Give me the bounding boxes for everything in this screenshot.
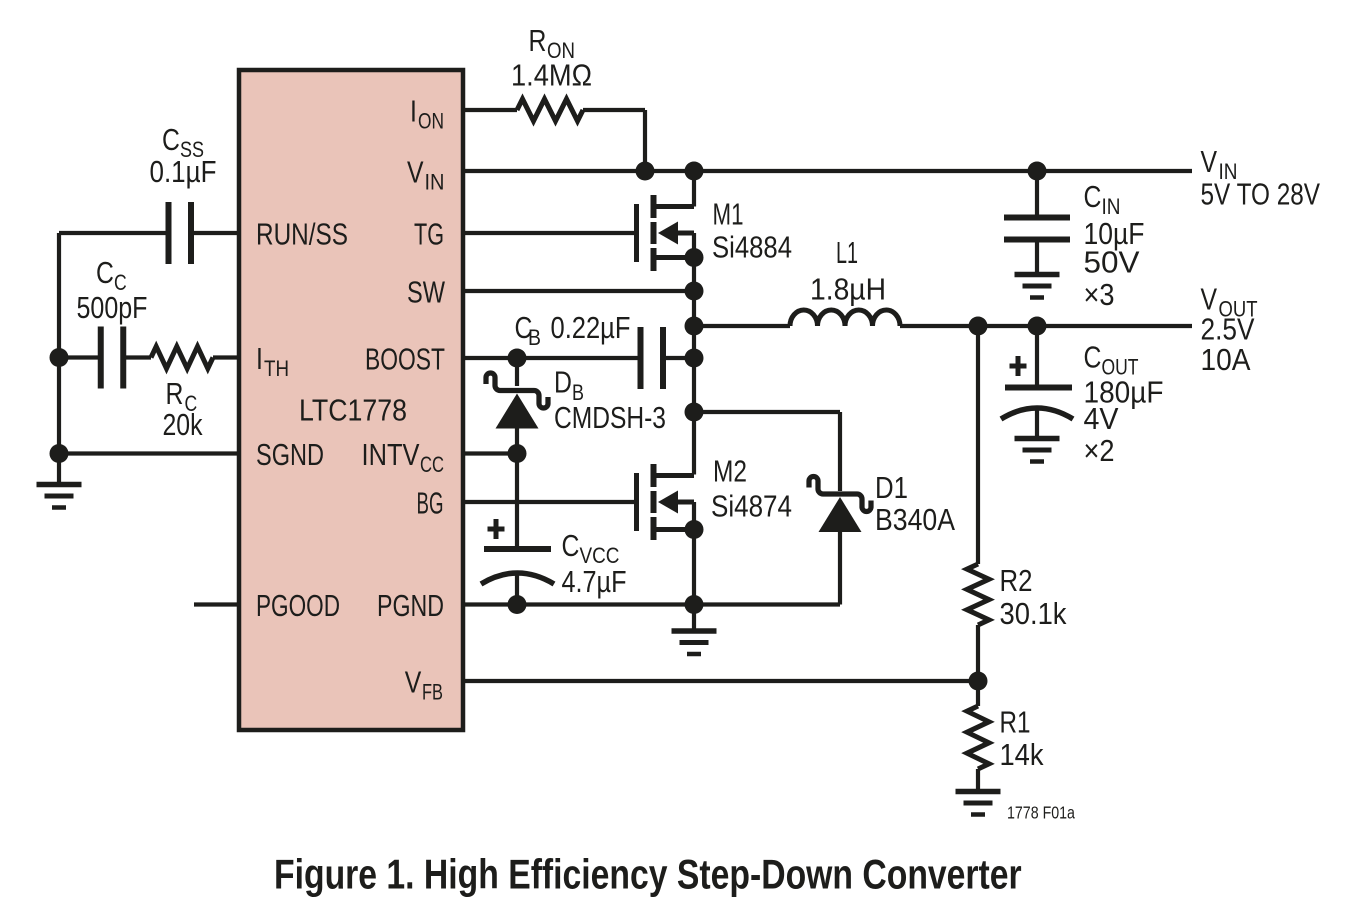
svg-text:RUN/SS: RUN/SS <box>256 217 348 251</box>
svg-text:CC: CC <box>420 453 444 478</box>
svg-text:SGND: SGND <box>256 437 324 472</box>
svg-text:R: R <box>166 376 184 410</box>
svg-text:×2: ×2 <box>1084 434 1115 468</box>
svg-text:ON: ON <box>418 110 444 134</box>
svg-text:TH: TH <box>264 357 289 382</box>
svg-text:I: I <box>256 341 263 375</box>
svg-text:BOOST: BOOST <box>365 341 445 376</box>
svg-text:C: C <box>1084 179 1102 213</box>
svg-text:B340A: B340A <box>875 503 956 537</box>
svg-text:Si4884: Si4884 <box>712 230 792 265</box>
svg-text:FB: FB <box>422 680 443 705</box>
svg-text:C: C <box>562 528 580 562</box>
svg-text:10A: 10A <box>1201 343 1251 378</box>
svg-text:×3: ×3 <box>1084 278 1115 312</box>
svg-text:0.22µF: 0.22µF <box>551 311 631 346</box>
svg-text:M1: M1 <box>713 197 744 231</box>
svg-text:0.1µF: 0.1µF <box>150 155 217 190</box>
svg-text:I: I <box>410 94 417 128</box>
svg-text:IN: IN <box>425 171 445 195</box>
svg-text:C: C <box>96 255 114 289</box>
svg-text:4.7µF: 4.7µF <box>562 563 627 598</box>
svg-text:5V TO 28V: 5V TO 28V <box>1201 177 1321 211</box>
svg-text:PGND: PGND <box>377 588 444 623</box>
svg-text:Si4874: Si4874 <box>711 489 792 524</box>
svg-text:BG: BG <box>417 487 444 521</box>
svg-text:20k: 20k <box>163 407 204 441</box>
svg-text:M2: M2 <box>713 454 747 488</box>
svg-text:500pF: 500pF <box>77 289 148 324</box>
svg-text:C: C <box>1084 340 1102 374</box>
svg-text:30.1k: 30.1k <box>1000 598 1067 632</box>
svg-text:1778 F01a: 1778 F01a <box>1007 804 1075 823</box>
svg-text:V: V <box>1201 144 1218 178</box>
svg-text:CMDSH-3: CMDSH-3 <box>554 400 666 434</box>
svg-text:R1: R1 <box>1000 705 1031 740</box>
svg-text:TG: TG <box>414 217 444 252</box>
svg-text:R: R <box>529 23 547 57</box>
svg-text:LTC1778: LTC1778 <box>299 394 407 428</box>
svg-text:PGOOD: PGOOD <box>256 587 340 622</box>
svg-text:SW: SW <box>407 274 445 309</box>
svg-text:Figure 1. High Efficiency Step: Figure 1. High Efficiency Step-Down Conv… <box>274 852 1022 898</box>
svg-text:B: B <box>528 326 541 350</box>
svg-text:50V: 50V <box>1084 245 1140 280</box>
svg-text:4V: 4V <box>1084 402 1119 436</box>
svg-text:1.8µH: 1.8µH <box>810 272 886 306</box>
svg-text:INTV: INTV <box>362 438 420 473</box>
svg-text:D: D <box>554 365 572 399</box>
svg-text:V: V <box>407 155 424 189</box>
svg-text:V: V <box>405 665 422 699</box>
svg-text:C: C <box>162 122 180 156</box>
svg-text:L1: L1 <box>836 234 858 270</box>
svg-text:IN: IN <box>1102 195 1121 220</box>
svg-text:V: V <box>1201 282 1218 316</box>
svg-text:1.4MΩ: 1.4MΩ <box>511 59 592 93</box>
svg-text:14k: 14k <box>1000 738 1044 772</box>
svg-text:R2: R2 <box>1000 564 1033 599</box>
svg-text:D1: D1 <box>875 471 908 506</box>
